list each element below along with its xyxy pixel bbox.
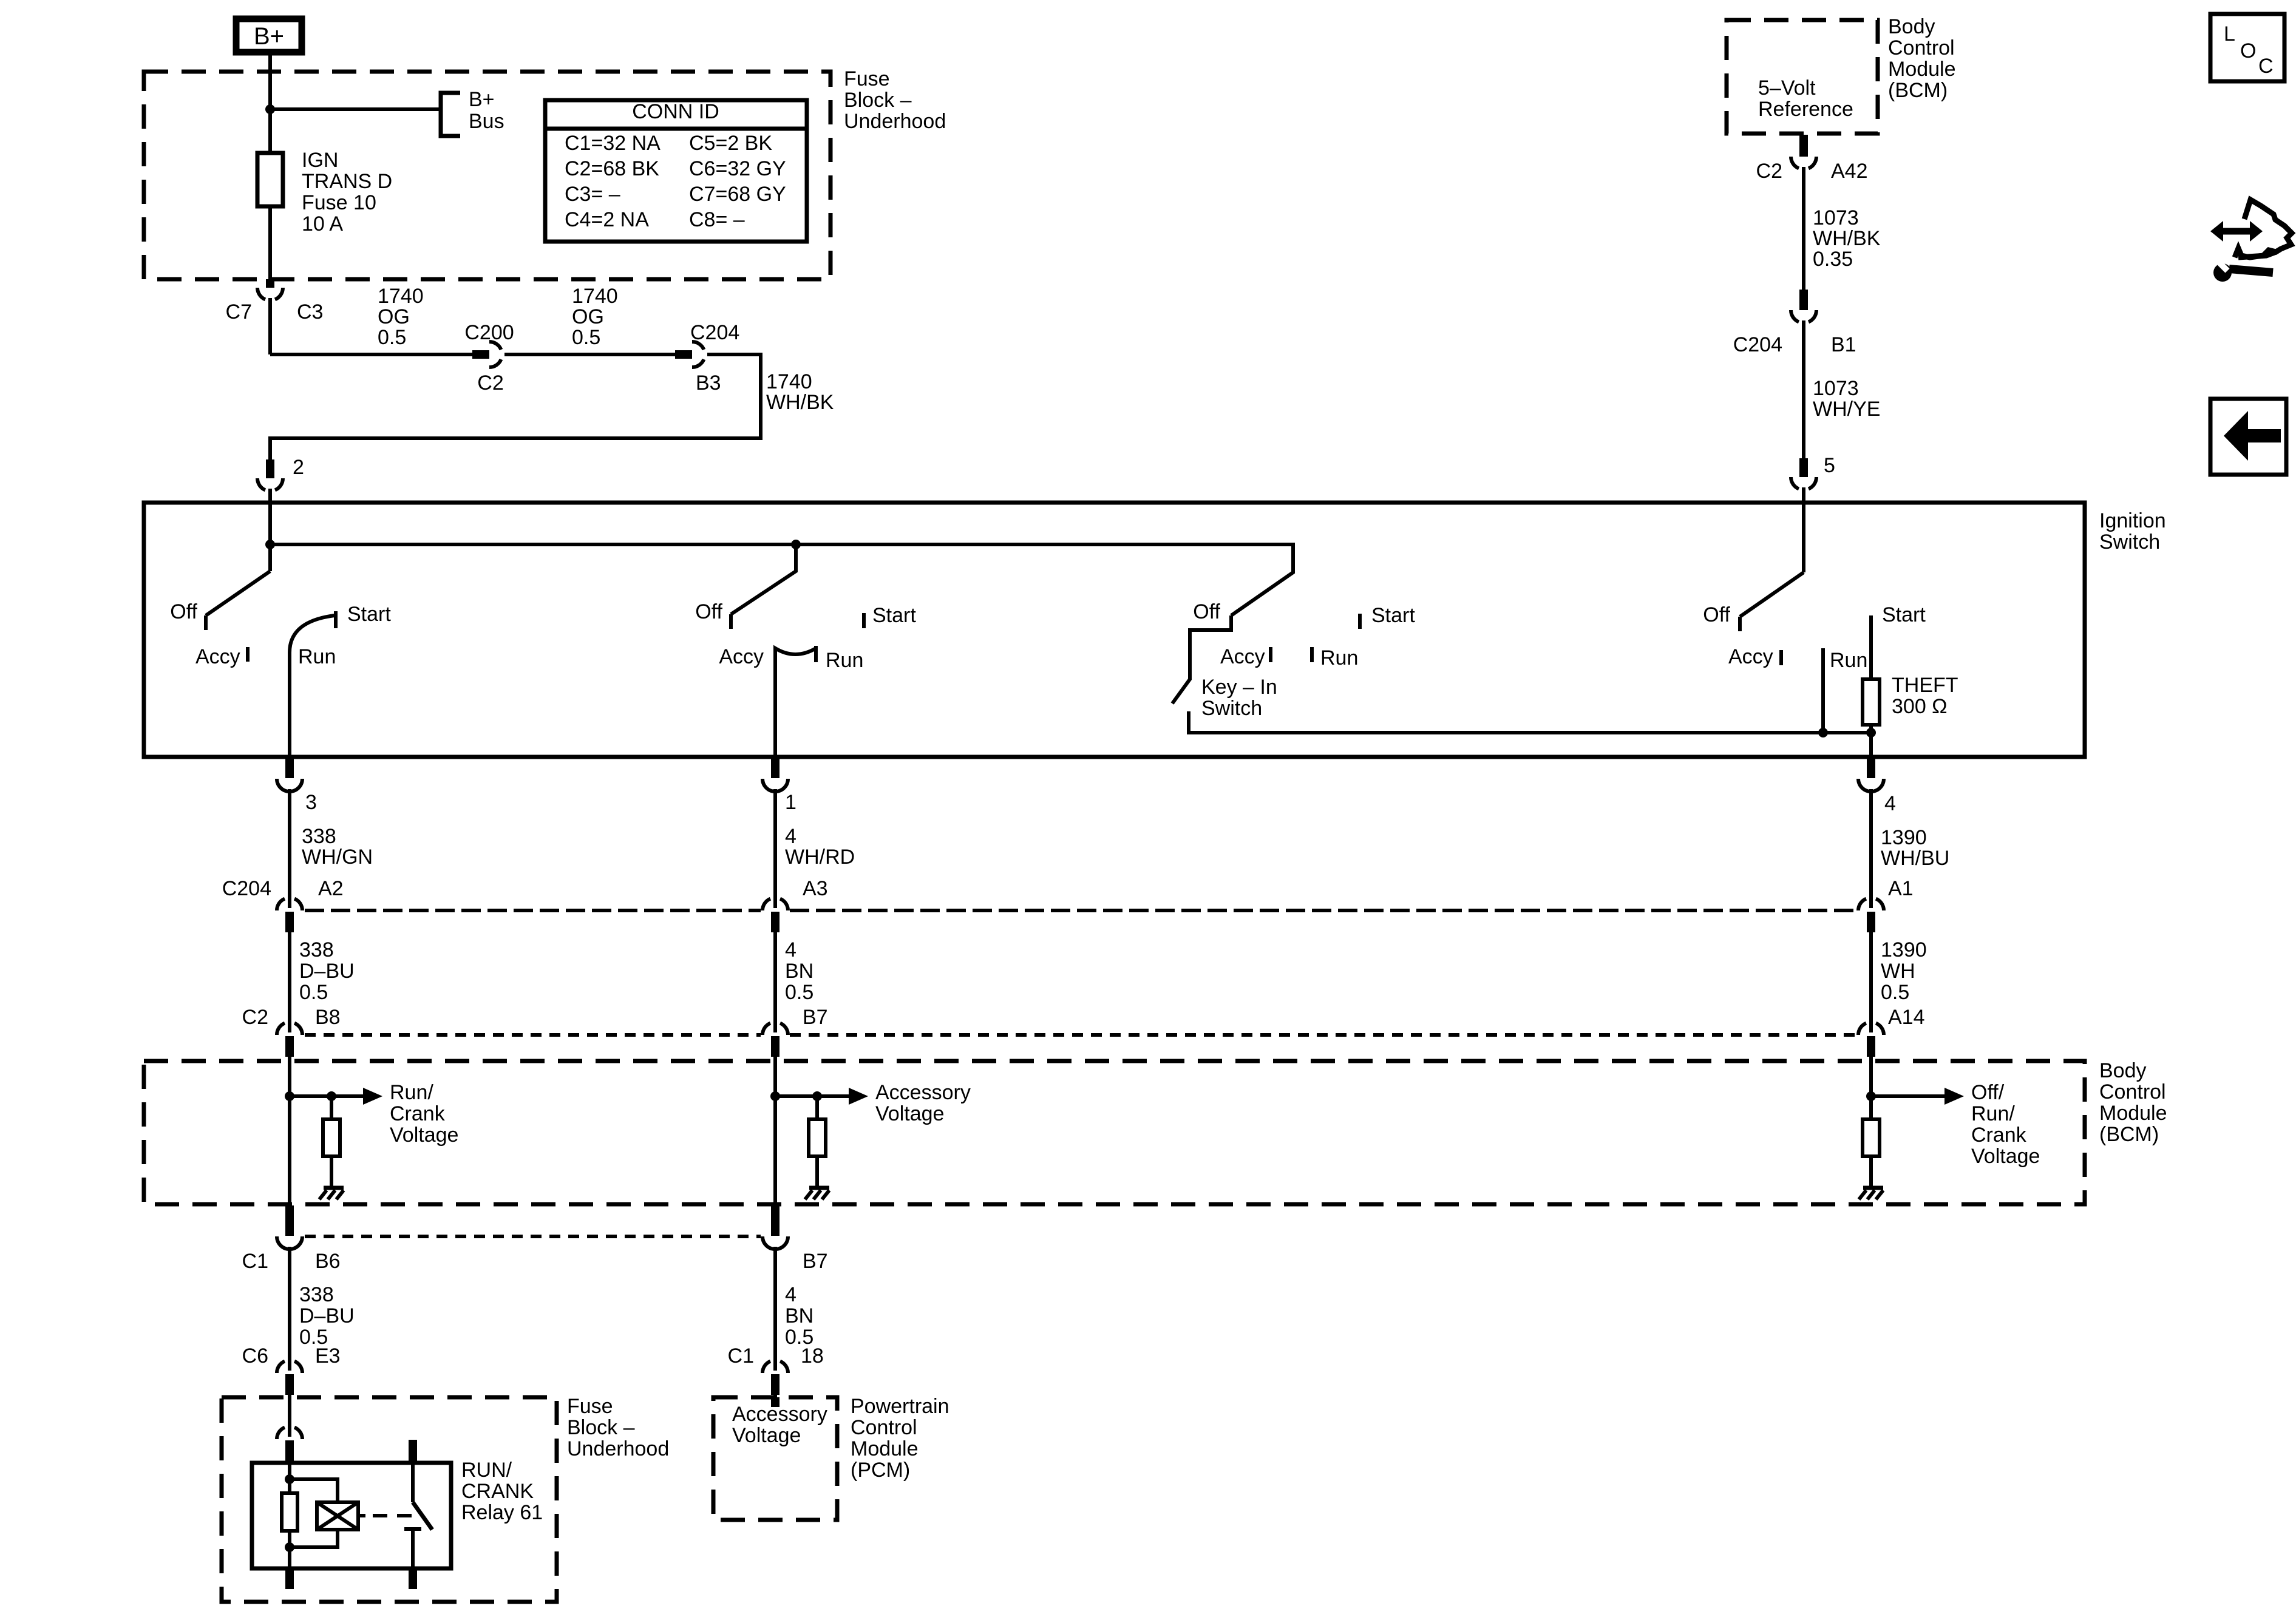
- svg-text:Crank: Crank: [1971, 1124, 2027, 1147]
- svg-text:Off: Off: [1193, 600, 1220, 623]
- svg-text:Control: Control: [851, 1416, 917, 1439]
- svg-text:Module: Module: [851, 1437, 919, 1460]
- svg-text:B1: B1: [1831, 333, 1856, 356]
- svg-text:WH/RD: WH/RD: [785, 846, 855, 869]
- svg-text:Block –: Block –: [844, 89, 912, 112]
- svg-text:C2=68 BK: C2=68 BK: [565, 157, 659, 180]
- svg-text:Run/: Run/: [390, 1081, 433, 1104]
- svg-text:Body: Body: [2099, 1059, 2147, 1082]
- svg-text:C2: C2: [242, 1006, 268, 1029]
- svg-text:B6: B6: [315, 1250, 341, 1273]
- svg-text:OG: OG: [378, 305, 410, 328]
- svg-text:Off/: Off/: [1971, 1081, 2005, 1104]
- svg-text:3: 3: [305, 791, 317, 814]
- svg-text:B8: B8: [315, 1006, 341, 1029]
- svg-text:338: 338: [299, 1283, 334, 1306]
- svg-text:C3: C3: [297, 300, 323, 324]
- svg-text:Fuse: Fuse: [567, 1395, 613, 1418]
- svg-text:Body: Body: [1888, 15, 1935, 38]
- svg-text:0.5: 0.5: [785, 981, 813, 1004]
- svg-text:B3: B3: [696, 371, 721, 395]
- svg-text:C1=32 NA: C1=32 NA: [565, 132, 661, 155]
- svg-text:Control: Control: [1888, 36, 1955, 59]
- svg-text:Key – In: Key – In: [1201, 676, 1277, 699]
- svg-text:5: 5: [1824, 454, 1835, 477]
- svg-text:C1: C1: [242, 1250, 268, 1273]
- svg-text:Off: Off: [1703, 603, 1730, 626]
- svg-text:L: L: [2224, 22, 2235, 46]
- svg-text:Reference: Reference: [1758, 98, 1853, 121]
- svg-text:A14: A14: [1888, 1006, 1925, 1029]
- svg-text:(BCM): (BCM): [1888, 79, 1948, 102]
- svg-text:C4=2 NA: C4=2 NA: [565, 208, 649, 231]
- svg-text:1740: 1740: [378, 285, 424, 308]
- svg-text:4: 4: [785, 938, 796, 961]
- svg-text:WH/BK: WH/BK: [766, 391, 834, 414]
- svg-text:B7: B7: [803, 1006, 828, 1029]
- svg-text:B+: B+: [254, 23, 284, 50]
- svg-text:C5=2 BK: C5=2 BK: [689, 132, 772, 155]
- svg-text:Accy: Accy: [719, 645, 764, 668]
- svg-text:THEFT: THEFT: [1892, 674, 1958, 697]
- svg-text:0.35: 0.35: [1813, 248, 1853, 271]
- svg-text:Control: Control: [2099, 1080, 2166, 1103]
- svg-text:C6: C6: [242, 1344, 268, 1368]
- svg-text:Voltage: Voltage: [875, 1102, 944, 1125]
- svg-text:Accy: Accy: [195, 645, 240, 668]
- svg-text:(BCM): (BCM): [2099, 1123, 2159, 1146]
- svg-text:1740: 1740: [766, 370, 812, 393]
- svg-text:Start: Start: [1882, 603, 1926, 626]
- svg-text:WH/YE: WH/YE: [1813, 398, 1880, 421]
- svg-text:Module: Module: [1888, 58, 1956, 81]
- svg-text:Start: Start: [872, 604, 916, 627]
- svg-text:B7: B7: [803, 1250, 828, 1273]
- svg-text:CONN ID: CONN ID: [632, 100, 719, 123]
- svg-text:WH: WH: [1881, 960, 1915, 983]
- svg-text:Underhood: Underhood: [567, 1437, 669, 1460]
- svg-text:D–BU: D–BU: [299, 1304, 355, 1327]
- svg-text:Block –: Block –: [567, 1416, 635, 1439]
- svg-text:C7: C7: [226, 300, 252, 324]
- svg-text:C200: C200: [464, 321, 514, 344]
- svg-text:4: 4: [785, 1283, 796, 1306]
- svg-text:300 Ω: 300 Ω: [1892, 695, 1948, 718]
- svg-text:1390: 1390: [1881, 938, 1927, 961]
- svg-text:A3: A3: [803, 877, 828, 900]
- svg-text:Accy: Accy: [1728, 645, 1773, 668]
- svg-text:C204: C204: [1733, 333, 1782, 356]
- svg-text:TRANS D: TRANS D: [302, 170, 392, 193]
- svg-text:C2: C2: [1756, 160, 1782, 183]
- svg-text:C204: C204: [222, 877, 271, 900]
- svg-text:1073: 1073: [1813, 377, 1859, 400]
- svg-text:Voltage: Voltage: [732, 1424, 801, 1447]
- svg-text:Run: Run: [1320, 646, 1358, 670]
- svg-text:1073: 1073: [1813, 206, 1859, 229]
- svg-text:A42: A42: [1831, 160, 1868, 183]
- svg-text:1740: 1740: [572, 285, 618, 308]
- svg-text:Off: Off: [170, 600, 197, 623]
- svg-text:CRANK: CRANK: [461, 1480, 534, 1503]
- svg-text:C204: C204: [690, 321, 739, 344]
- svg-text:BN: BN: [785, 1304, 813, 1327]
- svg-text:18: 18: [801, 1344, 824, 1368]
- svg-text:OG: OG: [572, 305, 604, 328]
- svg-text:Voltage: Voltage: [1971, 1145, 2040, 1168]
- svg-text:Run: Run: [1830, 649, 1867, 672]
- svg-text:338: 338: [299, 938, 334, 961]
- svg-text:0.5: 0.5: [1881, 981, 1909, 1004]
- svg-text:338: 338: [302, 825, 336, 848]
- svg-text:Off: Off: [695, 600, 722, 623]
- svg-text:RUN/: RUN/: [461, 1459, 512, 1482]
- svg-text:1390: 1390: [1881, 826, 1927, 849]
- svg-text:Relay 61: Relay 61: [461, 1501, 543, 1524]
- svg-text:0.5: 0.5: [299, 981, 328, 1004]
- svg-text:Run: Run: [298, 645, 336, 668]
- svg-text:C2: C2: [477, 371, 503, 395]
- svg-text:Module: Module: [2099, 1102, 2167, 1125]
- svg-text:C8= –: C8= –: [689, 208, 745, 231]
- svg-text:0.5: 0.5: [378, 326, 406, 349]
- svg-text:1: 1: [785, 791, 796, 814]
- svg-text:WH/GN: WH/GN: [302, 846, 373, 869]
- svg-text:B+: B+: [469, 88, 495, 111]
- svg-text:Run/: Run/: [1971, 1102, 2015, 1125]
- svg-text:(PCM): (PCM): [851, 1459, 910, 1482]
- svg-text:Run: Run: [826, 649, 863, 672]
- svg-text:Accy: Accy: [1220, 645, 1265, 668]
- svg-text:Fuse 10: Fuse 10: [302, 191, 376, 214]
- svg-text:Bus: Bus: [469, 110, 504, 133]
- svg-text:C6=32 GY: C6=32 GY: [689, 157, 786, 180]
- svg-text:Powertrain: Powertrain: [851, 1395, 949, 1418]
- svg-text:Ignition: Ignition: [2099, 509, 2166, 532]
- svg-text:BN: BN: [785, 960, 813, 983]
- svg-text:4: 4: [1884, 792, 1896, 815]
- svg-text:C7=68 GY: C7=68 GY: [689, 183, 786, 206]
- svg-text:E3: E3: [315, 1344, 341, 1368]
- svg-text:Start: Start: [1371, 604, 1415, 627]
- svg-text:5–Volt: 5–Volt: [1758, 76, 1816, 100]
- svg-text:C3= –: C3= –: [565, 183, 620, 206]
- svg-text:IGN: IGN: [302, 149, 338, 172]
- svg-text:A1: A1: [1888, 877, 1914, 900]
- svg-text:Start: Start: [347, 603, 391, 626]
- svg-text:Accessory: Accessory: [732, 1403, 827, 1426]
- svg-text:Crank: Crank: [390, 1102, 446, 1125]
- svg-text:A2: A2: [318, 877, 344, 900]
- svg-text:0.5: 0.5: [572, 326, 600, 349]
- svg-text:10 A: 10 A: [302, 212, 343, 236]
- svg-text:O: O: [2240, 39, 2256, 63]
- svg-text:Switch: Switch: [1201, 697, 1262, 720]
- svg-text:WH/BK: WH/BK: [1813, 227, 1881, 250]
- svg-text:C1: C1: [728, 1344, 754, 1368]
- svg-text:2: 2: [293, 456, 304, 479]
- svg-text:Voltage: Voltage: [390, 1124, 458, 1147]
- svg-text:Accessory: Accessory: [875, 1081, 971, 1104]
- svg-text:D–BU: D–BU: [299, 960, 355, 983]
- svg-text:4: 4: [785, 825, 796, 848]
- svg-text:WH/BU: WH/BU: [1881, 847, 1949, 870]
- svg-text:Switch: Switch: [2099, 531, 2160, 554]
- svg-text:Fuse: Fuse: [844, 67, 890, 90]
- svg-text:C: C: [2258, 55, 2274, 78]
- svg-text:Underhood: Underhood: [844, 110, 946, 133]
